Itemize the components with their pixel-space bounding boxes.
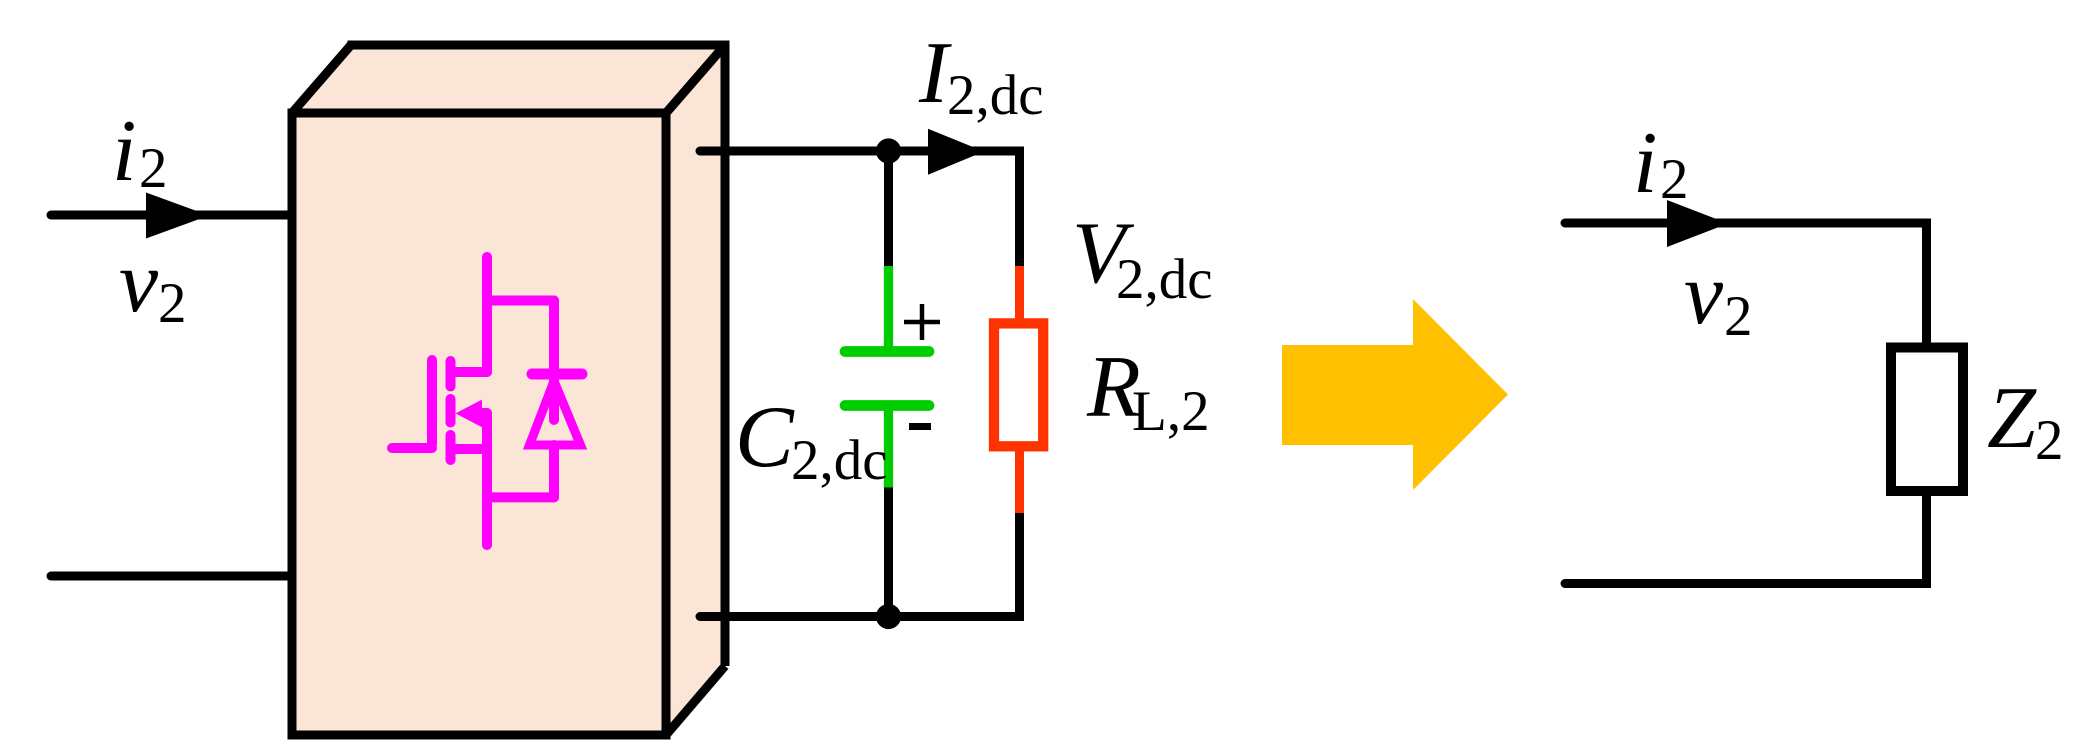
MOSFET channel segment 3 [446,435,456,460]
svg-text:2: 2 [139,137,168,200]
wire diode bottom branch [487,492,554,502]
wire diode cathode vertical [549,301,559,421]
wire source vertical [482,413,492,545]
capacitor C2,dc top plate [845,346,929,357]
svg-text:i: i [1633,115,1657,212]
resistor RL,2 bottom lead (red) [1015,451,1024,513]
node junction bottom (capacitor tap) [876,604,901,629]
wire diode top branch [487,296,554,306]
wire gate lead [392,443,432,453]
svg-text:2: 2 [2035,409,2064,472]
wire capacitor branch top (black) [884,151,893,266]
svg-text:2,dc: 2,dc [791,429,888,492]
capacitor C2,dc bottom lead (green) [884,410,893,488]
converter box top-left slant edge [292,45,351,113]
capacitor C2,dc bottom plate [845,400,929,411]
svg-text:2,dc: 2,dc [947,64,1044,127]
capacitor C2,dc top lead (green) [884,266,893,347]
svg-text:2: 2 [1660,148,1689,211]
arrowhead current i2 equivalent [1667,200,1728,247]
svg-text:2: 2 [1724,285,1753,348]
wire source contact [452,444,487,454]
converter box top face fill [292,45,725,113]
resistor RL,2 top lead (red) [1015,266,1024,319]
wire equivalent bottom [1565,496,1927,584]
svg-text:2,dc: 2,dc [1116,248,1213,311]
impedance Z2 body [1891,348,1963,492]
minus sign polarity [909,423,931,430]
converter box front face [292,113,666,735]
node junction top (capacitor tap) [876,138,901,163]
arrowhead current I2,dc [928,129,984,175]
wire input top [51,211,292,220]
svg-text:C: C [735,389,795,486]
converter box top-right slant edge [666,45,725,113]
MOSFET channel segment 1 [446,361,456,387]
big yellow arrow (transformation) [1282,299,1508,490]
transistor Q1 (MOSFET with body diode, magenta) [392,257,582,545]
wire input bottom [51,572,292,581]
MOSFET gate bar [427,360,437,444]
svg-text:Z: Z [1987,370,2037,467]
diode D1 triangle [530,381,581,445]
wire drain lead [482,257,492,372]
wire diode anode vertical [549,445,559,497]
converter box U1 (3D block) [292,45,725,735]
diode D1 cathode bar [532,369,582,380]
plus sign polarity [904,304,940,340]
resistor RL,2 body [994,323,1043,446]
MOSFET body arrow stem [478,408,487,418]
converter box side face fill [666,45,725,735]
MOSFET channel segment 2 [446,399,456,423]
wire capacitor branch bottom (black) [884,488,893,617]
wire drain contact [451,367,487,377]
wire dc output bottom [700,513,1020,617]
wire dc output top [700,151,1020,267]
converter box bottom-right slant edge [666,666,725,735]
svg-text:2: 2 [158,272,187,335]
svg-text:v: v [1684,246,1724,343]
MOSFET body arrowhead [456,400,483,428]
converter box back edge (top + right) [348,45,726,666]
svg-text:L,2: L,2 [1132,380,1210,443]
wire equivalent top [1565,223,1927,343]
svg-text:v: v [119,234,159,331]
arrowhead current i2 input [146,193,209,239]
svg-text:i: i [112,103,136,200]
